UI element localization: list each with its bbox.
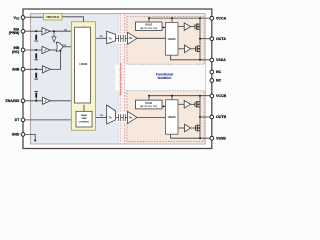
svg-text:UVLO: UVLO: [145, 102, 152, 105]
svg-text:VSSA: VSSA: [216, 58, 226, 62]
svg-text:INA: INA: [99, 35, 103, 38]
svg-text:NC: NC: [216, 79, 222, 83]
svg-text:(NC): (NC): [12, 50, 19, 54]
svg-text:Reinforced Isolation Barrier: Reinforced Isolation Barrier: [119, 63, 123, 96]
svg-text:OUTA: OUTA: [216, 37, 226, 41]
svg-text:LOGIC: LOGIC: [168, 38, 176, 41]
svg-text:INA: INA: [64, 28, 68, 31]
svg-text:GND: GND: [12, 133, 20, 137]
svg-text:NC: NC: [216, 70, 222, 74]
svg-text:INB: INB: [100, 115, 104, 117]
svg-text:(PWM): (PWM): [9, 31, 20, 35]
svg-text:LOGIC: LOGIC: [80, 63, 88, 66]
svg-text:VSSB: VSSB: [216, 136, 226, 140]
svg-text:VDD UVLO: VDD UVLO: [46, 16, 59, 19]
svg-text:DEAD: DEAD: [81, 114, 88, 117]
svg-text:VCC: VCC: [14, 16, 20, 21]
svg-text:(8V, 5V, 12V, 17V): (8V, 5V, 12V, 17V): [140, 106, 157, 108]
svg-text:TIME: TIME: [81, 118, 87, 120]
svg-text:(8V, 5V, 12V, 17V): (8V, 5V, 12V, 17V): [140, 28, 157, 30]
svg-text:ANB: ANB: [12, 67, 20, 71]
svg-text:UVLO: UVLO: [145, 24, 152, 27]
svg-text:INB: INB: [63, 45, 67, 47]
svg-text:CONTROL: CONTROL: [79, 121, 90, 123]
svg-text:LOGIC: LOGIC: [168, 116, 176, 119]
svg-text:OUTB: OUTB: [216, 115, 227, 119]
svg-text:ENA/DIS: ENA/DIS: [6, 99, 20, 103]
svg-text:VCCA: VCCA: [216, 16, 227, 20]
svg-text:VCCB: VCCB: [216, 94, 227, 98]
svg-text:Isolation: Isolation: [158, 76, 172, 80]
